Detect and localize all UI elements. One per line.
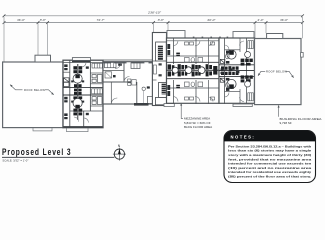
top edge window ticks	[193, 37, 228, 39]
elevator door marks	[159, 63, 162, 76]
svg-text:ROOF BELOW: ROOF BELOW	[266, 70, 287, 74]
left wing top bump	[35, 55, 51, 62]
mid block wall horizontal	[103, 81, 131, 83]
left unit block outline	[63, 60, 103, 128]
right unit top balcony bump	[233, 32, 254, 39]
mid block wall vertical lower left	[110, 82, 112, 104]
right unit closet stripes bottom	[248, 93, 253, 101]
left unit bottom thick wall	[64, 126, 103, 128]
left unit right column closet top	[92, 63, 102, 68]
center block bath clusters top	[185, 42, 215, 62]
right unit upper room walls	[239, 39, 241, 53]
stair core upper box	[156, 42, 167, 61]
dimension string segments line	[4, 22, 303, 24]
kitchen band fixtures	[168, 64, 218, 76]
svg-text:(80) percent of the floor area: (80) percent of the floor area of that s…	[228, 175, 311, 179]
svg-text:NOTES:: NOTES:	[231, 135, 256, 140]
center block wall v3	[208, 39, 210, 65]
right unit bath walls	[225, 49, 241, 51]
mid block upper-left room walls	[103, 69, 124, 71]
left unit washer dryer stack	[64, 78, 69, 87]
mid block circle symbol	[142, 87, 145, 90]
right unit toilet upper	[226, 54, 230, 59]
right unit washer stack upper	[220, 59, 225, 63]
kitchen band circles	[172, 67, 178, 73]
svg-text:8'-8": 8'-8"	[158, 18, 165, 22]
svg-text:36'-0": 36'-0"	[280, 18, 289, 22]
mid block inner top wall	[103, 59, 153, 61]
center block inner top wall	[167, 40, 220, 42]
left unit dark fixture upper	[75, 75, 79, 79]
right unit dark fixture lower	[229, 84, 234, 88]
left unit left column fixtures	[64, 64, 67, 119]
unit label tag upper	[176, 53, 180, 56]
left unit lower room divider	[83, 111, 85, 128]
mid block outline	[103, 62, 153, 104]
left unit wall vertical right column	[89, 60, 91, 111]
center block wall v3 lower	[208, 80, 210, 104]
left unit dark fixture lower	[75, 105, 79, 109]
right unit wall v2	[246, 39, 248, 105]
dimension tick marks	[3, 14, 304, 24]
right unit second circles	[245, 52, 251, 58]
right unit circle upper	[227, 50, 236, 59]
mid block top wall thick segments	[103, 62, 152, 64]
dimension extension lines	[4, 17, 303, 62]
right wing edge notch	[301, 53, 304, 58]
left wing roof outline	[3, 62, 63, 128]
unit label tag lower	[176, 85, 180, 88]
notes box	[224, 131, 316, 183]
right unit circle lower	[227, 79, 236, 88]
mezzanine area label	[184, 117, 212, 129]
right unit wall v1	[224, 39, 226, 105]
mid block right tag mark	[147, 86, 150, 88]
left unit chain mid marks	[71, 66, 89, 115]
right wing roof outline	[255, 39, 302, 105]
right unit closet stripes top	[248, 41, 253, 49]
svg-text:ROOF BELOW: ROOF BELOW	[24, 88, 45, 92]
tower bottom room	[155, 98, 166, 105]
svg-text:SCALE: 3/32" = 1'-0": SCALE: 3/32" = 1'-0"	[2, 158, 28, 162]
left wing bottom step	[33, 128, 52, 131]
center block extra band blobs	[185, 65, 201, 76]
center block bath clusters bottom	[185, 82, 215, 100]
left unit cross wall 2	[63, 87, 103, 89]
left unit cross wall 3	[63, 94, 103, 96]
left unit inner top wall	[63, 62, 103, 64]
svg-text:8'-8": 8'-8"	[40, 18, 47, 22]
mid block circle symbol stem	[143, 91, 145, 105]
notes header bar	[224, 131, 316, 142]
center block door arcs	[173, 41, 213, 102]
left unit door arcs	[74, 63, 88, 123]
mid block closet right	[131, 63, 140, 69]
left unit right column fixtures lower	[90, 97, 103, 106]
svg-text:BLDG FLOOR AREA: BLDG FLOOR AREA	[184, 125, 212, 129]
lobby notches	[152, 61, 156, 80]
right unit washer stack lower	[220, 78, 225, 82]
left unit cross wall 4	[70, 110, 103, 112]
right unit outline	[219, 38, 255, 103]
roof below leader left arrow	[10, 85, 23, 90]
center block wall v1	[173, 39, 175, 65]
center block wall v1 lower	[173, 80, 175, 104]
svg-text:60'-0": 60'-0"	[208, 18, 217, 22]
mid block entry vestibule	[147, 97, 152, 104]
bottom edge window ticks	[193, 102, 228, 104]
center block room wall bottom	[167, 87, 220, 89]
right unit step below	[233, 104, 252, 107]
roof below right leader left arrow	[258, 71, 265, 76]
roof below leader right arrow	[45, 90, 54, 95]
building floor area label	[280, 117, 322, 125]
svg-text:36'-0": 36'-0"	[17, 18, 26, 22]
left unit circle fixture lower	[73, 98, 82, 107]
left unit top wall thick segment	[72, 60, 91, 62]
svg-text:9,738 SF: 9,738 SF	[280, 121, 292, 125]
north compass	[113, 144, 126, 161]
center block side strips	[167, 44, 170, 96]
building floor area leader	[278, 107, 280, 117]
mid block wall vertical center	[123, 62, 125, 82]
stair core upper dark ladder	[158, 46, 163, 60]
mid block dark bottom wall	[134, 103, 149, 106]
tower strip outline	[152, 33, 166, 106]
svg-text:236'-10": 236'-10"	[147, 11, 162, 15]
stair core lower box	[159, 83, 169, 98]
center block room wall top	[167, 55, 220, 57]
roof below right leader right arrow	[286, 71, 294, 78]
left unit circle fixture upper	[73, 74, 82, 83]
left unit chain clusters	[73, 66, 82, 115]
right wing top bump	[267, 34, 283, 39]
svg-text:N: N	[118, 144, 121, 148]
mid block bath cluster	[128, 79, 137, 85]
mid block wall vertical lower	[136, 82, 138, 104]
right unit left marks	[221, 68, 240, 74]
left unit right column bath mid	[90, 73, 103, 84]
center block wall v2 lower	[195, 80, 197, 104]
right unit toilet lower	[226, 83, 230, 88]
bottom step left of center	[164, 104, 174, 107]
notes body text	[228, 144, 312, 178]
left unit right column closet mid	[92, 89, 103, 94]
svg-text:74'-7": 74'-7"	[97, 18, 106, 22]
right unit dark fixture upper	[229, 50, 234, 54]
right unit kitchen band	[241, 59, 253, 83]
svg-text:Proposed Level 3: Proposed Level 3	[2, 147, 72, 157]
left unit bottom tab	[67, 128, 89, 131]
left unit top bump	[72, 58, 90, 61]
mezzanine leader	[181, 105, 183, 119]
center block outline	[167, 38, 220, 103]
left unit vertical chain center line	[77, 64, 79, 120]
right unit corridor walls	[219, 64, 255, 66]
left unit wall vertical left column	[69, 60, 71, 128]
svg-text:4'-0": 4'-0"	[257, 18, 264, 22]
center block top balcony bump	[167, 31, 185, 39]
center block wall v2	[195, 39, 197, 65]
dimension labels row 2	[17, 18, 289, 22]
dimension string overall 236'-10"	[4, 15, 303, 17]
kitchen band center line	[167, 69, 220, 71]
mid block closet left	[105, 63, 117, 68]
mid block door arcs	[111, 63, 129, 104]
left unit cross wall 1	[63, 71, 70, 73]
stair core lower dark ladder	[162, 84, 166, 95]
center corridor walls	[167, 61, 220, 63]
right unit door arcs	[225, 41, 245, 102]
title underline	[2, 156, 114, 158]
